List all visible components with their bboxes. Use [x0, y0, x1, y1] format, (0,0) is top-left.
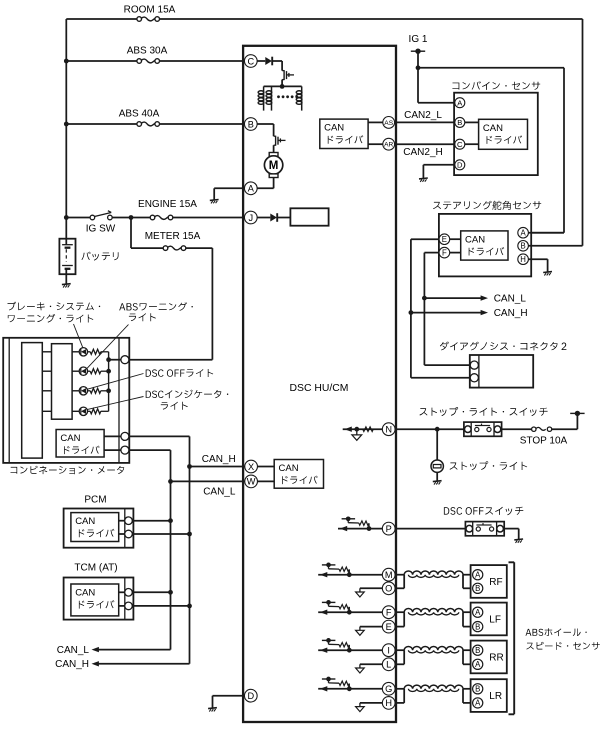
arrow CAN_L: [481, 295, 488, 300]
lamp stop light: [431, 460, 443, 472]
wire pin L internal: [360, 663, 383, 665]
wire ROOM 15A feed (top rail): [66, 18, 137, 20]
wire pin H internal: [360, 702, 383, 704]
svg-text:B: B: [248, 119, 254, 129]
wire net CAN_L vertical: [423, 253, 425, 366]
svg-text:B: B: [520, 242, 525, 251]
junction TCM CAN_L: [168, 590, 173, 595]
wire METER branch down: [130, 218, 132, 249]
junction lamp row2: [106, 369, 111, 374]
svg-text:A: A: [475, 608, 481, 617]
svg-text:DSC HU/CM: DSC HU/CM: [290, 383, 349, 394]
pin G DSC: [382, 682, 395, 695]
wire PCM to CAN_L bus: [132, 520, 170, 522]
fuse ROOM 15A: [141, 17, 155, 21]
svg-text:B: B: [475, 685, 480, 694]
wire switch to fuse STOP: [502, 428, 532, 430]
wire fuse to battery feed: [552, 428, 578, 430]
svg-text:RR: RR: [489, 652, 503, 663]
pin C combine: [455, 139, 465, 149]
svg-text:E: E: [386, 622, 392, 632]
svg-text:D: D: [247, 691, 254, 701]
op-amp U4 CAN driver (steering sensor): [461, 231, 508, 260]
svg-text:CAN2_L: CAN2_L: [404, 110, 442, 121]
junction TCM CAN_H: [187, 604, 192, 609]
arrow I to logic: [320, 648, 327, 653]
op-amp U6 CAN driver (PCM): [71, 513, 119, 542]
wire CAN_L arrow row: [424, 297, 481, 299]
resistor R6 pull-up LR sensor: [347, 686, 352, 691]
wire ABS 30A to pin C: [159, 60, 245, 62]
wire U6 upper to pin: [119, 520, 125, 522]
wire TCM to CAN_L bus: [132, 591, 170, 593]
svg-text:ABS 40A: ABS 40A: [119, 109, 160, 120]
wire CAN_L to pin W: [171, 480, 246, 482]
switch SW2 DSC OFF switch: [465, 522, 504, 536]
pin L DSC: [382, 658, 395, 671]
pin O DSC: [382, 582, 395, 595]
wire tap to stop light: [436, 429, 438, 460]
pin A DSC: [244, 182, 257, 195]
svg-text:CAN_H: CAN_H: [202, 454, 236, 465]
combine sensor box: [454, 93, 538, 175]
internal supply block: [290, 208, 328, 225]
pin meter supply: [121, 356, 129, 364]
svg-text:LF: LF: [489, 614, 501, 625]
pin B combine: [455, 117, 465, 127]
wire PCM to CAN_H bus: [132, 533, 189, 535]
junction CAN_H tap: [409, 310, 414, 315]
twisted pair RR sensor: [404, 647, 463, 651]
wire battery bus vertical: [65, 19, 67, 239]
svg-text:B: B: [475, 584, 480, 593]
wire pin O internal: [360, 587, 383, 589]
wire METER into combination meter: [129, 359, 213, 361]
callout line DSC OFF light: [87, 374, 144, 390]
wire right vertical to steering sensor B: [582, 19, 584, 246]
wire steering F out: [424, 252, 439, 254]
ground combine sensor D: [419, 177, 428, 180]
fuse ABS 40A: [141, 122, 155, 126]
wire pin E internal: [360, 626, 383, 628]
arrow G to logic: [320, 686, 327, 691]
logic input triangle N: [352, 435, 362, 440]
wire pin A to ground: [214, 187, 245, 189]
battery: [59, 239, 75, 275]
svg-text:CAN: CAN: [75, 516, 95, 527]
svg-text:ABS 30A: ABS 30A: [127, 46, 168, 57]
wire lamp feed to connector: [109, 359, 121, 361]
wire CAN_H arrow row: [411, 312, 482, 314]
wire twisted pair to LF sensor: [463, 611, 474, 613]
wire IG1 to combine sensor A: [418, 102, 455, 104]
logic input triangle H: [356, 707, 365, 712]
junction IG1 branch: [416, 65, 421, 70]
wire bus to IG SW: [66, 217, 90, 219]
TCM box: [64, 578, 134, 620]
wire U5 to CAN_L pin: [104, 449, 121, 451]
logic input triangle E: [356, 630, 365, 635]
svg-text:CAN: CAN: [279, 463, 299, 474]
ground battery: [62, 283, 71, 286]
pin A RR: [473, 659, 483, 669]
fuse ENGINE 15A: [155, 216, 169, 220]
wire twisted pair to RR sensor: [463, 649, 474, 651]
svg-text:G: G: [385, 684, 392, 694]
svg-text:M: M: [385, 570, 393, 580]
pin AS DSC: [383, 117, 395, 129]
svg-text:TCM (AT): TCM (AT): [74, 562, 117, 573]
svg-text:AS: AS: [384, 120, 393, 127]
wire ABS 40A row: [66, 123, 137, 125]
wire U7 lower to pin: [119, 605, 125, 607]
wire CAN_H bus tail: [99, 663, 190, 665]
svg-text:O: O: [385, 584, 392, 594]
terminal battery feed STOP: [570, 412, 584, 414]
svg-text:F: F: [386, 608, 392, 618]
steering angle sensor box: [439, 214, 531, 277]
resistor R5 pull-up RR sensor: [347, 648, 352, 653]
wire U6 lower to pin: [119, 533, 125, 535]
wire pin F to twisted pair: [394, 611, 404, 613]
svg-text:IG 1: IG 1: [409, 34, 428, 45]
pin F DSC: [382, 606, 395, 619]
pin D DSC: [244, 689, 257, 702]
fuse METER 15A: [168, 246, 182, 250]
wire meter CAN_L out: [129, 449, 171, 451]
wire pin W to CAN driver U2: [256, 480, 274, 482]
resistor R2 pull-up DSC OFF input: [367, 526, 372, 531]
label DSC indicator light: [146, 390, 229, 399]
wheel speed sensor LF box: [471, 603, 507, 636]
junction bus/ABS30A: [64, 59, 69, 64]
wire lamp row 2: [42, 370, 51, 372]
pin H steering: [518, 254, 529, 265]
label DSC OFF switch: [444, 507, 523, 515]
PCM box: [64, 509, 134, 548]
diode D1 valve supply: [265, 57, 272, 65]
svg-text:LR: LR: [489, 691, 502, 702]
arrow CAN_H: [481, 310, 488, 315]
wire steering A to IG1 branch: [529, 232, 565, 234]
wire pin P internal: [338, 528, 383, 530]
arrow F to logic: [320, 610, 327, 615]
arrow CAN_H out: [92, 661, 99, 666]
wire METER row: [131, 247, 163, 249]
pin diag lower: [470, 374, 478, 382]
wire pin G internal: [318, 688, 383, 690]
wire CAN driver U1 to pin AS: [368, 121, 383, 123]
wire switch to ground: [504, 528, 519, 530]
ellipsis more coils: [277, 95, 280, 98]
wire CAN_L to diag connector: [424, 364, 470, 366]
svg-text:D: D: [457, 161, 463, 170]
solenoid valve coil L2: [271, 86, 273, 110]
op-amp U5 CAN driver (meter): [56, 430, 104, 458]
pin meter CAN_L: [121, 446, 129, 454]
svg-text:A: A: [475, 699, 481, 708]
svg-text:A: A: [475, 660, 481, 669]
transistor Q1 valve driver FET: [281, 61, 283, 71]
svg-text:CAN_H: CAN_H: [494, 308, 528, 319]
svg-text:A: A: [475, 571, 481, 580]
ground pin A: [210, 199, 219, 202]
switch IG SW: [90, 215, 95, 220]
svg-text:M: M: [269, 160, 279, 172]
wire pin O to twisted pair: [394, 587, 404, 589]
svg-text:PCM: PCM: [84, 494, 106, 505]
svg-text:STOP 10A: STOP 10A: [520, 436, 568, 447]
svg-text:CAN: CAN: [465, 235, 485, 246]
wire METER fuse to corner: [186, 247, 213, 249]
label combine sensor: [452, 81, 540, 90]
label brake system warning light: [8, 302, 101, 311]
label steering angle sensor: [433, 201, 541, 210]
svg-text:F: F: [442, 248, 447, 257]
label ABS warning light: [119, 302, 193, 311]
wire lamp row 1: [42, 351, 51, 353]
pin A steering: [518, 227, 529, 238]
pin P DSC: [382, 522, 395, 535]
svg-text:I: I: [387, 646, 390, 656]
wire pin F internal: [318, 611, 383, 613]
pin B LR: [473, 684, 483, 694]
wire pin M internal: [318, 574, 383, 576]
diode D2 ignition feed: [270, 214, 277, 222]
pin F steering: [439, 247, 450, 258]
wire solenoid header: [264, 85, 302, 87]
svg-text:N: N: [385, 425, 392, 435]
pin E DSC: [382, 620, 395, 633]
label DSC OFF light: [146, 369, 214, 377]
transistor Q2 pump motor FET: [273, 124, 275, 136]
label stop light: [450, 461, 528, 470]
ground DSC OFF switch: [514, 538, 523, 541]
op-amp U7 CAN driver (TCM): [71, 584, 119, 616]
svg-text:J: J: [249, 213, 254, 223]
wire ROOM 15A rail to right side: [159, 18, 582, 20]
label ABS wheel speed sensor line1: [526, 628, 587, 636]
svg-text:CAN_H: CAN_H: [55, 659, 89, 670]
wire lamp row 4: [42, 410, 51, 412]
label ABS wheel speed sensor line2: [526, 642, 599, 650]
svg-text:P: P: [386, 524, 392, 534]
junction CAN_H to X: [187, 464, 192, 469]
junction PCM CAN_L: [168, 518, 173, 523]
bracket ABS sensors group: [513, 562, 515, 714]
combination meter box: [3, 338, 129, 463]
pin M DSC: [382, 568, 395, 581]
pin E steering: [439, 234, 450, 245]
pin B LF: [473, 622, 483, 632]
resistor lamp 4: [88, 410, 91, 412]
op-amp U1 CAN driver (DSC CAN2): [320, 119, 368, 148]
svg-text:ENGINE 15A: ENGINE 15A: [138, 199, 197, 210]
lamp DSC OFF light: [79, 387, 87, 395]
wire steering F to U4: [450, 252, 461, 254]
wire twisted pair to RF sensor: [463, 574, 474, 576]
wire pin L to twisted pair: [394, 663, 404, 665]
op-amp U3 CAN driver (combine sensor): [479, 119, 528, 149]
callout line DSC indicator: [87, 397, 144, 410]
wire combine C to U3: [465, 143, 479, 145]
op-amp U2 CAN driver (DSC main CAN): [274, 460, 323, 489]
wire pin M to twisted pair: [394, 574, 404, 576]
twisted pair RF sensor: [404, 571, 463, 575]
svg-text:W: W: [247, 477, 256, 487]
wheel speed sensor RR box: [471, 641, 507, 674]
wire ABS 30A row: [66, 60, 137, 62]
wire IG 1 vertical: [417, 51, 419, 102]
wire pin N to stop light switch: [394, 428, 464, 430]
svg-text:B: B: [475, 646, 480, 655]
label battery: [82, 252, 119, 261]
wheel speed sensor LR box: [471, 679, 507, 712]
svg-text:CAN_L: CAN_L: [57, 645, 90, 656]
wire steering H to ground: [529, 258, 548, 260]
wire U7 upper to pin: [119, 591, 125, 593]
svg-text:CAN: CAN: [60, 433, 80, 444]
DSC HU/CM unit box: [243, 46, 396, 722]
wire combine B to U3: [465, 121, 479, 123]
wire ENGINE 15A to pin J: [173, 217, 246, 219]
label diagnosis connector 2: [440, 342, 567, 351]
lamp DSC indicator light: [79, 407, 87, 415]
pin J DSC: [244, 211, 257, 224]
logic input triangle O: [356, 592, 365, 597]
junction bus/ENGINE15A: [64, 215, 69, 220]
pin B RF: [473, 583, 483, 593]
wire pin E to twisted pair: [394, 626, 404, 628]
svg-text:L: L: [386, 660, 391, 670]
svg-text:E: E: [442, 235, 447, 244]
arrow to brake circuit: [344, 427, 351, 432]
meter internal block 1: [22, 343, 43, 459]
resistor lamp 3: [88, 390, 91, 392]
wire pin I internal: [318, 649, 383, 651]
pin A combine: [455, 98, 465, 108]
resistor lamp 2: [88, 370, 91, 372]
pin X DSC: [245, 460, 258, 473]
svg-text:ROOM 15A: ROOM 15A: [124, 4, 176, 15]
svg-text:B: B: [475, 622, 480, 631]
wire diode to regulator: [278, 217, 291, 219]
label stop light switch: [420, 407, 548, 416]
ground stop light: [433, 480, 442, 483]
wire IG1 branch to steering A: [418, 67, 564, 69]
wire pin I to twisted pair: [394, 649, 404, 651]
pin meter CAN_H: [121, 432, 129, 440]
svg-text:CAN: CAN: [483, 123, 503, 134]
meter internal block 2: [52, 344, 73, 420]
solenoid valve coil L3: [301, 86, 303, 110]
svg-text:B: B: [457, 118, 462, 127]
junction CAN_L to W: [168, 479, 173, 484]
pin N DSC: [382, 423, 395, 436]
pin PCM CAN_L: [125, 517, 133, 525]
lamp ABS warning light: [79, 367, 87, 375]
wire net CAN2_L AS to B: [394, 121, 455, 123]
wire diode to FET Q1: [273, 60, 283, 62]
wire net CAN_H vertical: [410, 239, 412, 378]
wire combine D to ground: [423, 164, 455, 166]
wire METER vertical: [211, 248, 213, 360]
pin B DSC: [244, 118, 257, 131]
pin A RF: [473, 570, 483, 580]
junction bus/ABS40A: [64, 122, 69, 127]
twisted pair LF sensor: [404, 609, 463, 613]
wire CAN driver U1 to pin AR: [368, 143, 383, 145]
wire motor to pin A: [273, 178, 275, 189]
svg-text:H: H: [385, 698, 392, 708]
svg-text:C: C: [457, 140, 463, 149]
wire meter CAN_H out: [129, 435, 190, 437]
svg-text:METER 15A: METER 15A: [145, 231, 201, 242]
svg-text:CAN_L: CAN_L: [203, 487, 236, 498]
callout line ABS warning: [87, 325, 129, 369]
wire CAN_L bus tail: [99, 649, 171, 651]
arrow P to logic: [340, 526, 347, 531]
svg-text:A: A: [248, 184, 255, 194]
wire stop light to ground: [436, 472, 438, 481]
diagnosis connector 2 box: [470, 355, 533, 388]
ground steering H: [543, 271, 552, 274]
junction N branch: [354, 427, 359, 432]
junction CAN_L tap: [422, 296, 427, 301]
wire bus to battery: [65, 239, 67, 245]
pin PCM CAN_H: [125, 530, 133, 538]
wire TCM to CAN_H bus: [132, 605, 189, 607]
wire N branch to logic: [356, 429, 358, 435]
svg-text:C: C: [247, 56, 254, 66]
wire pin N internal: [343, 428, 384, 430]
wire pin D to ground: [213, 695, 246, 697]
junction ENGINE/METER branch: [129, 215, 134, 220]
wire net CAN_H bus vertical: [189, 436, 191, 663]
arrow CAN_L out: [92, 647, 99, 652]
resistor R1 stop lamp input: [363, 427, 373, 431]
wire pin P to DSC OFF switch: [394, 528, 465, 530]
callout line brake warning: [74, 324, 84, 348]
wheel speed sensor RF box: [471, 565, 507, 598]
wire CAN_H to diag connector: [411, 377, 470, 379]
motor M1 ABS pump: [269, 153, 278, 157]
resistor R4 pull-up LF sensor: [347, 610, 352, 615]
svg-text:AR: AR: [384, 142, 393, 149]
resistor R3 pull-up RF sensor: [347, 572, 352, 577]
svg-text:IG SW: IG SW: [86, 223, 116, 234]
pin diag upper: [470, 361, 478, 369]
wire U5 to CAN_H pin: [104, 435, 121, 437]
wire ABS 40A to pin B: [159, 123, 245, 125]
pin C DSC: [244, 55, 257, 68]
fuse STOP 10A: [536, 427, 546, 430]
wire net CAN2_H AR to C: [394, 143, 455, 145]
pin H DSC: [382, 697, 395, 710]
wire battery to ground: [65, 269, 67, 285]
wire twisted pair to LR sensor: [463, 688, 474, 690]
junction lamp feed: [106, 357, 111, 362]
wire pin X to CAN driver U2: [256, 466, 274, 468]
switch SW1 stop light switch: [464, 422, 502, 436]
junction stop light tap: [435, 427, 440, 432]
svg-text:CAN_L: CAN_L: [494, 294, 527, 305]
wire pin H to twisted pair: [394, 702, 404, 704]
pin AR DSC: [383, 138, 395, 150]
wire pin C to diode: [256, 60, 265, 62]
pin TCM CAN_L: [125, 589, 133, 597]
lamp brake system warning light: [79, 348, 87, 356]
